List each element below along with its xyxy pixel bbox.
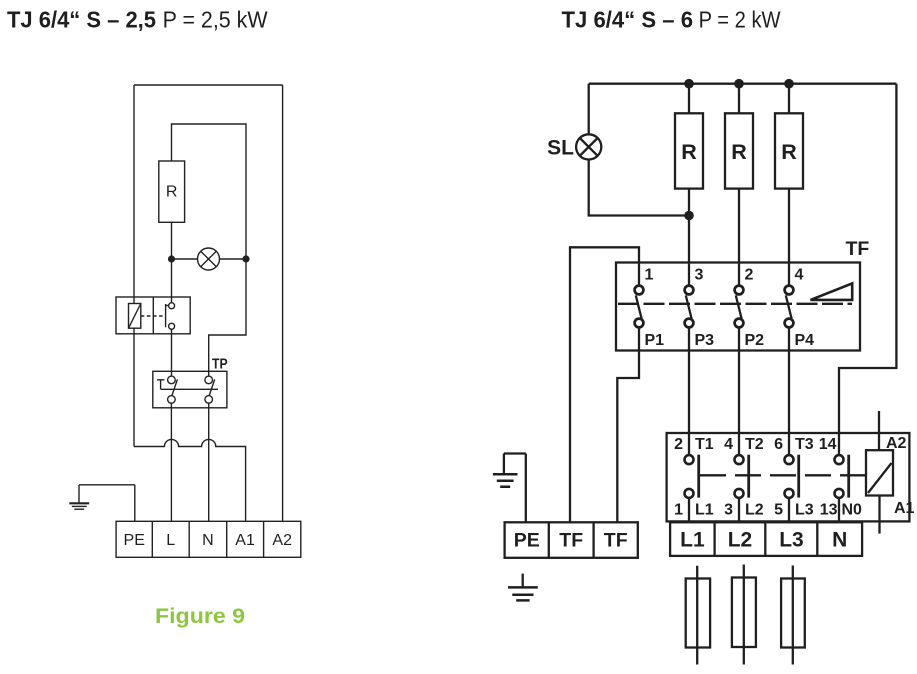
svg-text:R: R [681, 140, 697, 164]
svg-text:13: 13 [820, 502, 838, 519]
TP contact right [205, 376, 213, 384]
wire outer left [133, 85, 135, 447]
wire lamp right down to TP [209, 259, 246, 376]
svg-text:5: 5 [774, 502, 783, 519]
wire outer top [134, 84, 283, 86]
svg-text:14: 14 [819, 436, 837, 453]
svg-text:P3: P3 [695, 332, 715, 349]
terminal strip PE L N A1 A2 [116, 521, 301, 557]
wire P4 to 6/T3 [788, 328, 790, 455]
svg-text:2: 2 [745, 267, 754, 284]
svg-text:N0: N0 [842, 502, 863, 519]
wire P1 to TF terminal [617, 328, 639, 522]
contactor pole 14-13/N0 [835, 455, 844, 464]
thermal sensor T [157, 380, 165, 390]
svg-text:3: 3 [695, 267, 704, 284]
wire TF terminal to pin1 [570, 247, 639, 522]
wire coil A1 stub [878, 496, 880, 534]
svg-text:A2: A2 [886, 435, 907, 452]
svg-text:R: R [731, 140, 747, 164]
wire resistor bottom [171, 222, 173, 302]
node junction left of lamp [168, 255, 175, 262]
fuse F1 [696, 566, 698, 665]
svg-text:N: N [832, 528, 847, 551]
contactor pole 6/T3-5/L3 [785, 455, 794, 464]
svg-text:TP: TP [212, 357, 228, 373]
resistor R [159, 161, 185, 222]
wire TP right to N [208, 403, 210, 521]
terminal strip PE TF TF [505, 522, 638, 558]
fuse F2 [743, 565, 745, 665]
thermal element [129, 304, 141, 329]
wire TP left to L [170, 403, 172, 521]
wire with hops to A1 [134, 439, 246, 521]
svg-text:TF: TF [846, 238, 870, 260]
wire PE with ground [504, 454, 526, 523]
wire bus right to pin 14 [839, 84, 896, 455]
contactor box [667, 433, 910, 521]
wire P2 to 4/T2 [738, 328, 740, 455]
svg-text:A1: A1 [235, 532, 255, 549]
node bus R3 [784, 79, 794, 89]
svg-text:6: 6 [774, 436, 783, 453]
svg-text:L3: L3 [779, 528, 804, 551]
svg-text:L2: L2 [745, 502, 764, 519]
ground upper [493, 474, 518, 487]
svg-text:L: L [166, 532, 175, 549]
svg-text:SL: SL [547, 137, 574, 160]
TF contact 2 [735, 286, 744, 295]
node bus R1 [684, 79, 694, 89]
resistor R1 [675, 113, 703, 188]
dashed actuator link [141, 315, 166, 317]
svg-text:T1: T1 [695, 436, 714, 453]
thermal cutout contact [169, 303, 175, 309]
node junction right of lamp [242, 255, 249, 262]
contactor coil [866, 450, 893, 495]
mechanical link [161, 388, 218, 390]
TP contact left [168, 376, 176, 384]
svg-text:TJ 6/4“ S – 2,5: TJ 6/4“ S – 2,5 [7, 7, 156, 33]
contactor pole 4/T2-3/L2 [735, 455, 744, 464]
svg-text:L1: L1 [695, 502, 714, 519]
ground left [78, 485, 80, 504]
svg-text:P = 2,5 kW: P = 2,5 kW [163, 7, 268, 33]
svg-text:T3: T3 [795, 436, 814, 453]
svg-text:L1: L1 [680, 528, 705, 551]
svg-text:2: 2 [674, 436, 683, 453]
svg-text:T2: T2 [745, 436, 764, 453]
svg-text:A1: A1 [894, 500, 915, 517]
wire inner loop top [172, 124, 247, 259]
fuse F3 [792, 566, 794, 665]
svg-text:P1: P1 [645, 332, 665, 349]
svg-text:L2: L2 [728, 528, 753, 551]
svg-text:1: 1 [674, 502, 683, 519]
wire coil A2 stub [878, 411, 880, 450]
contactor dashed link [700, 474, 865, 476]
TF wedge [811, 283, 853, 300]
svg-text:1: 1 [645, 267, 654, 284]
svg-text:TF: TF [604, 529, 628, 551]
resistor R2 [725, 113, 753, 188]
wire P3 to 2/T1 [688, 328, 690, 455]
svg-text:A2: A2 [272, 532, 292, 549]
svg-text:PE: PE [514, 529, 540, 551]
wire outer right (to A2) [282, 85, 284, 521]
TF box [616, 263, 860, 351]
TF contact 1 [635, 286, 644, 295]
wire top bus [589, 83, 897, 85]
node SL return [684, 211, 694, 221]
svg-text:TJ 6/4“ S – 6: TJ 6/4“ S – 6 [562, 7, 694, 33]
wire lamp right [220, 258, 247, 260]
TF contact 3 [685, 286, 694, 295]
svg-text:P = 2 kW: P = 2 kW [699, 7, 781, 33]
TF dashed link [618, 303, 852, 305]
TF contact 4 [785, 286, 794, 295]
svg-text:R: R [781, 140, 797, 164]
wire PE [79, 485, 135, 522]
wire relay contact to TP [171, 329, 173, 376]
svg-text:N: N [202, 532, 214, 549]
wire lamp left [172, 258, 198, 260]
svg-text:TF: TF [559, 529, 583, 551]
svg-text:L3: L3 [795, 502, 814, 519]
svg-text:R: R [166, 184, 178, 201]
thermal cutout box [116, 297, 190, 334]
TP box [153, 371, 227, 408]
resistor R3 [775, 113, 803, 188]
wires poles to strip [689, 499, 839, 523]
svg-text:4: 4 [724, 436, 733, 453]
svg-text:4: 4 [795, 267, 804, 284]
svg-text:Figure 9: Figure 9 [155, 605, 245, 628]
terminal strip L1 L2 L3 N [670, 522, 862, 556]
contactor pole 2/T1-1/L1 [685, 455, 694, 464]
svg-text:P2: P2 [745, 332, 765, 349]
ground lower [522, 574, 524, 588]
svg-text:3: 3 [724, 502, 733, 519]
node bus R2 [734, 79, 744, 89]
svg-text:PE: PE [124, 532, 145, 549]
svg-text:P4: P4 [795, 332, 815, 349]
lamp HL1 [198, 248, 220, 270]
